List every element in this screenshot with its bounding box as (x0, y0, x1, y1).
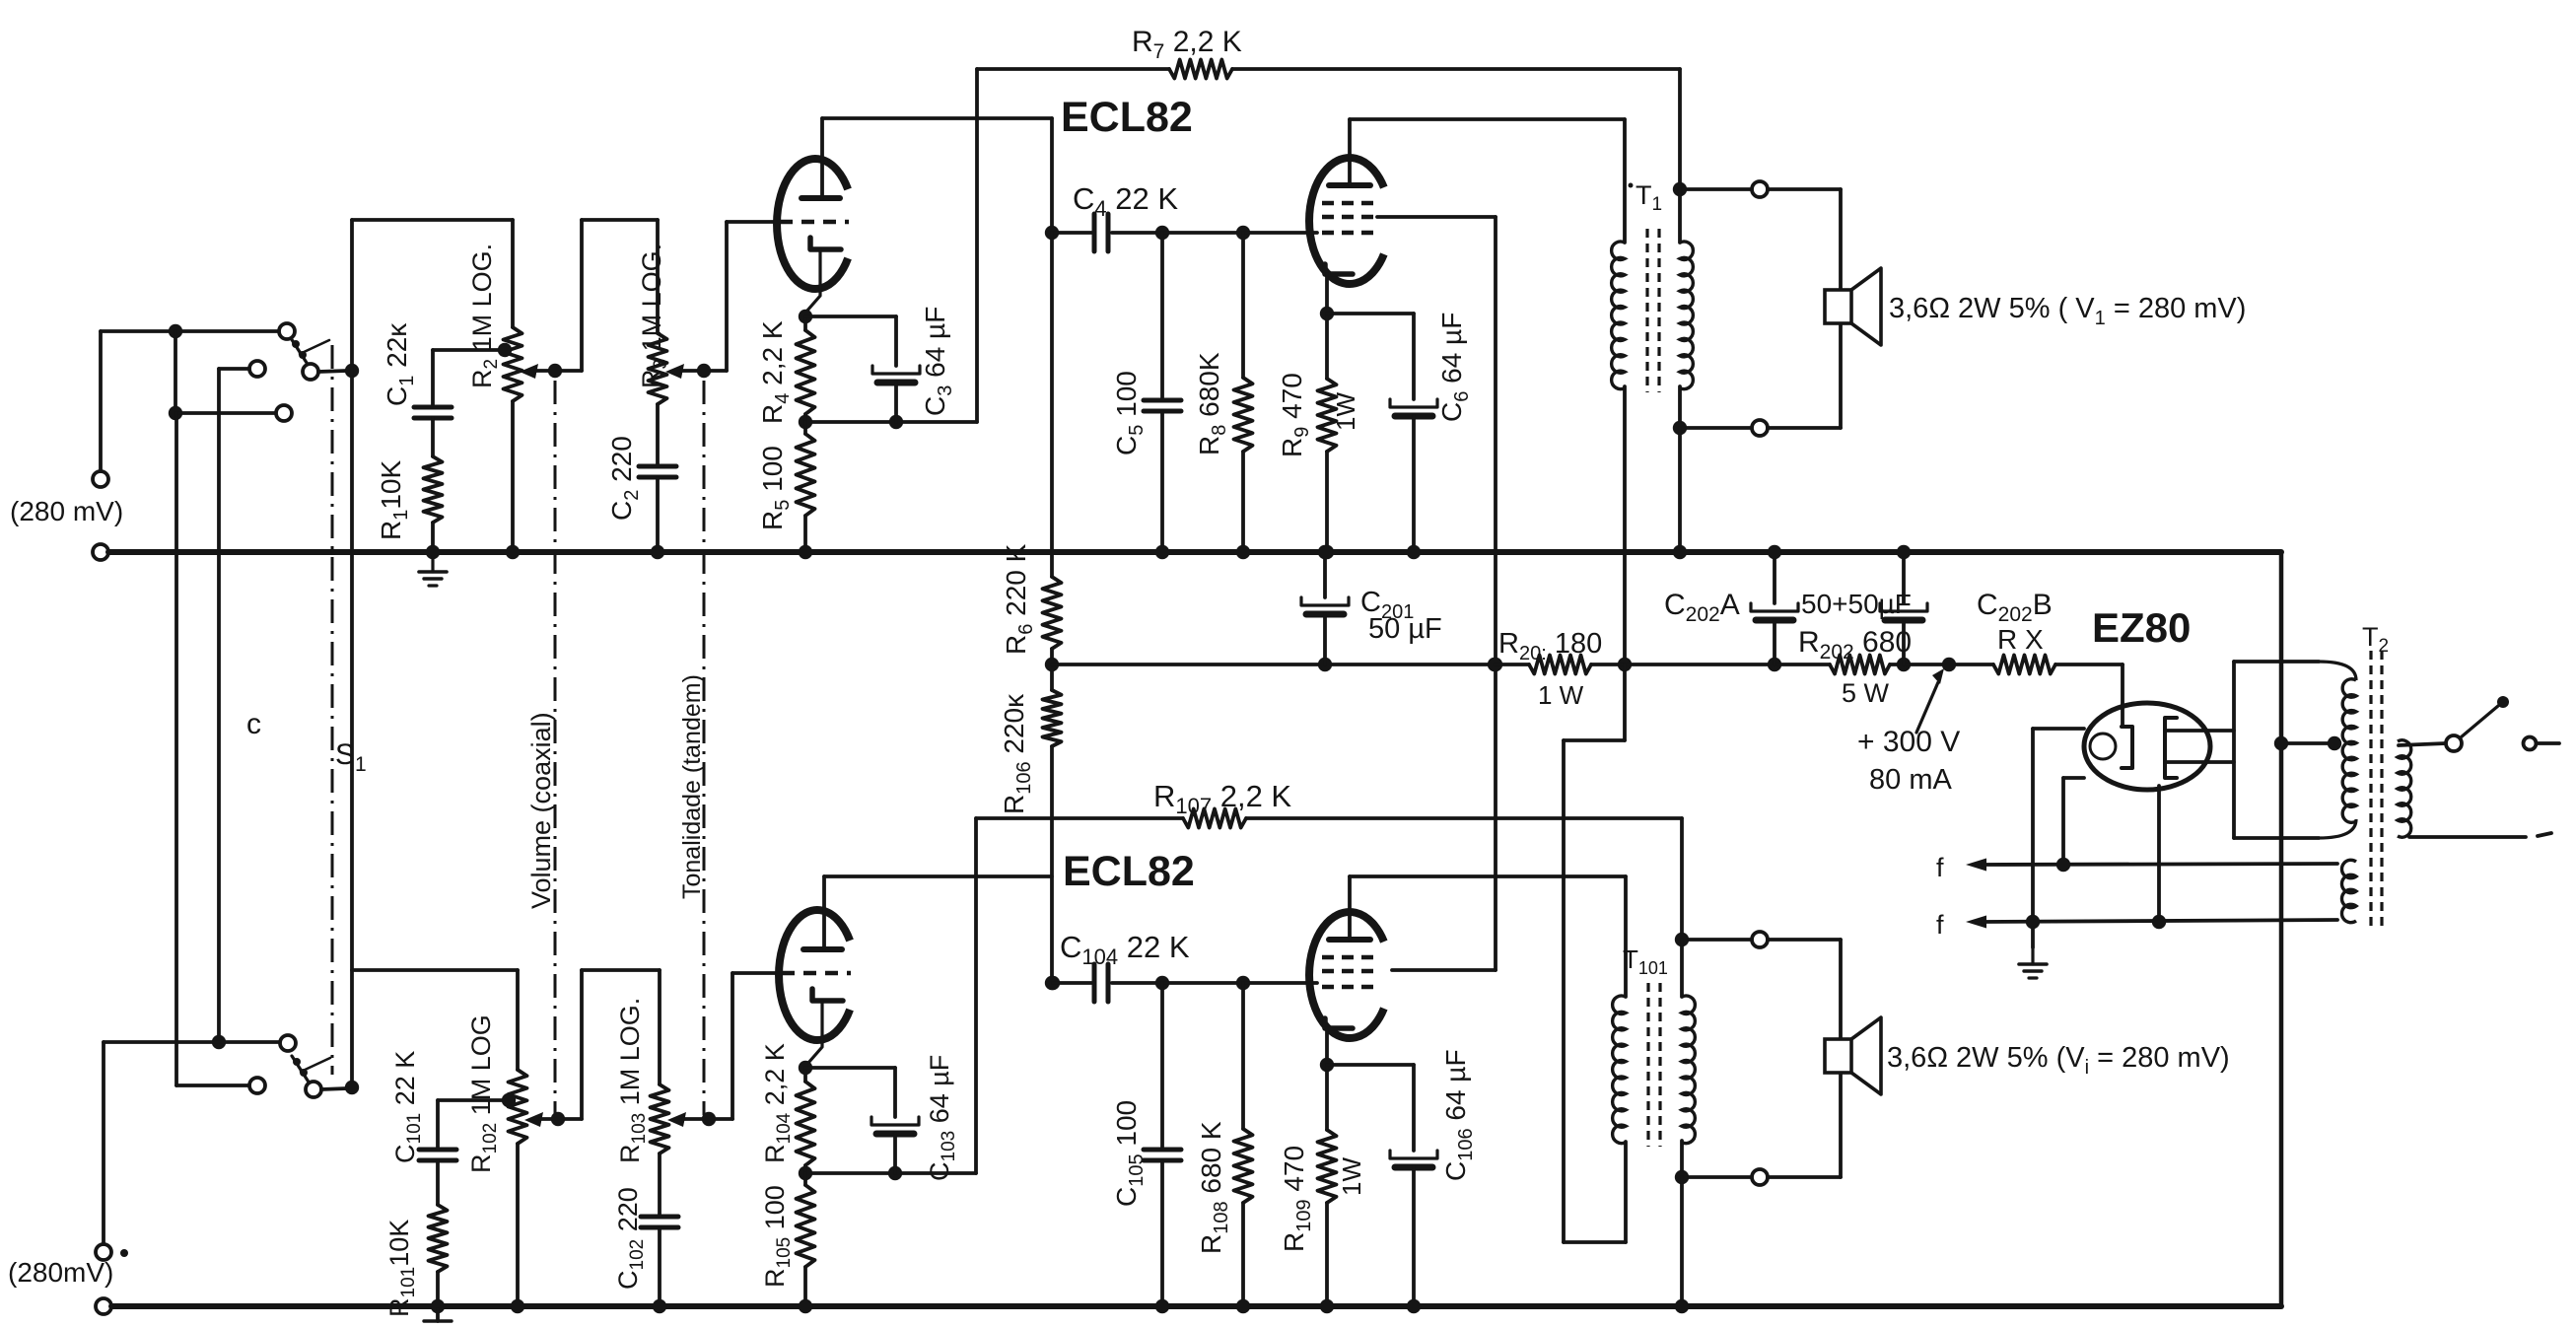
svg-text:5 W: 5 W (1842, 678, 1890, 708)
svg-text:R X: R X (1997, 624, 2044, 655)
svg-text:50+50µF: 50+50µF (1801, 589, 1912, 619)
svg-text:ECL82: ECL82 (1061, 94, 1193, 141)
svg-text:f: f (1936, 853, 1944, 882)
svg-text:EZ80: EZ80 (2092, 604, 2191, 651)
svg-text:R107​ 2,2 K: R107​ 2,2 K (1153, 779, 1291, 818)
svg-text:C102​ 220: C102​ 220 (613, 1187, 648, 1290)
svg-text:(280 mV): (280 mV) (10, 496, 123, 526)
svg-text:(280mV): (280mV) (8, 1257, 113, 1288)
svg-text:Volume (coaxial): Volume (coaxial) (526, 712, 556, 909)
svg-text:C103​ 64 µF: C103​ 64 µF (925, 1055, 959, 1181)
svg-text:ECL82: ECL82 (1063, 848, 1195, 895)
svg-text:3,6Ω 2W 5% (Vi​ = 280 mV): 3,6Ω 2W 5% (Vi​ = 280 mV) (1887, 1042, 2230, 1079)
svg-text:1W: 1W (1337, 1157, 1366, 1196)
svg-text:c: c (246, 708, 261, 740)
svg-text:C104​ 22 K: C104​ 22 K (1060, 930, 1190, 969)
svg-text:C4​ 22 K: C4​ 22 K (1073, 181, 1178, 221)
svg-text:50 µF: 50 µF (1368, 613, 1442, 645)
svg-text:f: f (1936, 910, 1944, 940)
svg-text:C101​ 22 K: C101​ 22 K (390, 1051, 425, 1163)
svg-text:R7​ 2,2 K: R7​ 2,2 K (1132, 26, 1242, 63)
svg-text:R20:​ 180: R20:​ 180 (1498, 628, 1602, 664)
svg-text:R104​ 2,2 K: R104​ 2,2 K (760, 1043, 795, 1163)
svg-text:R202​ 680: R202​ 680 (1798, 626, 1912, 664)
svg-text:R105​ 100: R105​ 100 (760, 1185, 795, 1288)
svg-text:80 mA: 80 mA (1869, 764, 1952, 796)
svg-text:1W: 1W (1331, 392, 1360, 431)
svg-text:Tonalidade (tandem): Tonalidade (tandem) (678, 674, 706, 899)
svg-text:1 W: 1 W (1538, 680, 1584, 710)
svg-text:3,6Ω 2W 5% ( V1​ = 280 mV): 3,6Ω 2W 5% ( V1​ = 280 mV) (1889, 293, 2246, 329)
svg-text:+ 300 V: + 300 V (1857, 726, 1960, 758)
